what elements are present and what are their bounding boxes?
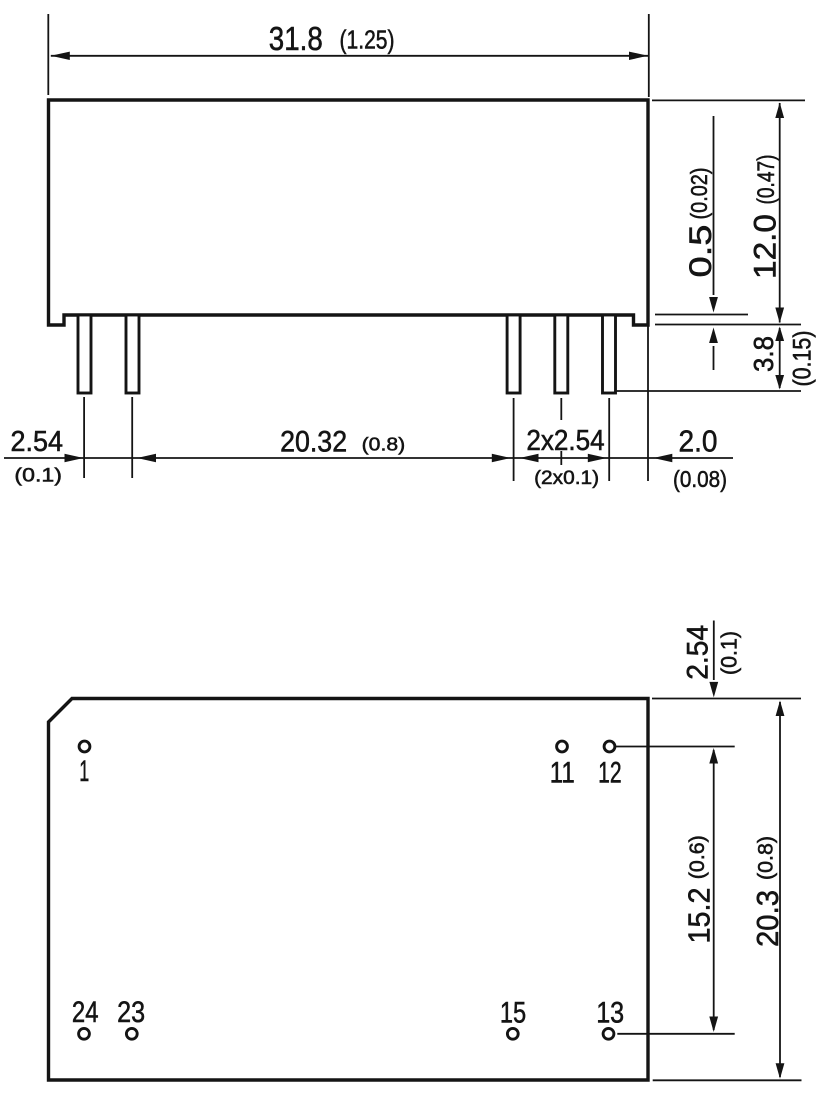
- dimension 20.3 (0.8) body length bottom view: [750, 701, 785, 1079]
- dimension 31.8 (1.25) overall width: [48, 14, 649, 97]
- svg-text:15.2: 15.2: [682, 888, 717, 944]
- svg-text:23: 23: [117, 996, 145, 1029]
- svg-text:31.8: 31.8: [269, 20, 323, 57]
- pin 24 label: [72, 996, 99, 1029]
- svg-text:15: 15: [500, 997, 526, 1030]
- pin 13 side view: [603, 315, 616, 393]
- svg-text:(0.47): (0.47): [753, 155, 780, 205]
- pin 11 label: [550, 757, 575, 790]
- dimension 20.32 (0.8) pin2-pin11 span: [137, 426, 511, 463]
- pin 1 label: [79, 755, 89, 788]
- bottom view extension lines: [616, 699, 802, 1081]
- right side extension lines side view: [615, 100, 805, 391]
- svg-text:12.0: 12.0: [747, 214, 783, 279]
- svg-text:12: 12: [598, 757, 622, 790]
- pin 1 side view: [78, 315, 91, 393]
- svg-text:20.32: 20.32: [280, 426, 347, 459]
- svg-text:(0.15): (0.15): [789, 331, 817, 387]
- dimension 2.54 (0.1) pin1-pin2 pitch: [11, 426, 84, 487]
- pin hole 23: [126, 1028, 137, 1039]
- pin 15 label: [500, 997, 526, 1030]
- pin 11 side view: [507, 315, 520, 393]
- svg-text:2.0: 2.0: [679, 424, 718, 459]
- svg-text:(0.6): (0.6): [686, 835, 709, 879]
- package body bottom view: [49, 699, 649, 1081]
- pin 12 label: [598, 757, 622, 790]
- dimension 0.5 (0.02) standoff: [682, 116, 718, 370]
- svg-text:(0.8): (0.8): [755, 836, 778, 880]
- svg-text:(0.1): (0.1): [14, 465, 62, 487]
- svg-text:2x2.54: 2x2.54: [526, 425, 604, 457]
- svg-text:2.54: 2.54: [11, 426, 64, 458]
- pin hole 15: [507, 1028, 518, 1039]
- pin 2 side view: [126, 315, 139, 393]
- svg-text:(2x0.1): (2x0.1): [534, 468, 599, 489]
- svg-text:2.54: 2.54: [682, 625, 715, 680]
- pin 23 label: [117, 996, 145, 1029]
- svg-text:1: 1: [79, 755, 89, 788]
- dimension 2.54 (0.1) edge to pin row bottom view: [682, 621, 742, 698]
- svg-text:(0.8): (0.8): [362, 434, 406, 455]
- pin hole 1: [79, 741, 90, 752]
- svg-text:11: 11: [550, 757, 575, 790]
- pin hole 13: [603, 1028, 614, 1039]
- svg-text:(1.25): (1.25): [340, 27, 395, 55]
- pin hole 11: [557, 741, 568, 752]
- dimension 2.0 (0.08) pin12 to edge: [653, 424, 727, 493]
- svg-text:24: 24: [72, 996, 99, 1029]
- dimension 3.8 (0.15) pin length: [748, 327, 817, 390]
- pin extension lines below side view: [84, 326, 648, 481]
- svg-text:20.3: 20.3: [750, 890, 785, 947]
- dimension 15.2 (0.6) pin row span bottom view: [682, 748, 719, 1032]
- dimension 12.0 (0.47) body height: [747, 103, 785, 324]
- svg-text:13: 13: [596, 997, 624, 1030]
- svg-text:3.8: 3.8: [748, 336, 779, 372]
- pin 15 side view: [555, 315, 568, 393]
- svg-text:0.5: 0.5: [682, 225, 718, 278]
- pin 13 label: [596, 997, 624, 1030]
- dimension 2x2.54 (2x0.1) output pin pitch: [520, 425, 607, 489]
- svg-text:(0.08): (0.08): [673, 466, 727, 492]
- pin hole 24: [79, 1028, 90, 1039]
- svg-text:(0.02): (0.02): [686, 168, 712, 220]
- pin hole 12: [604, 741, 615, 752]
- bottom dimension chain line: [4, 457, 733, 459]
- package body side view: [49, 100, 649, 325]
- svg-text:(0.1): (0.1): [717, 631, 742, 675]
